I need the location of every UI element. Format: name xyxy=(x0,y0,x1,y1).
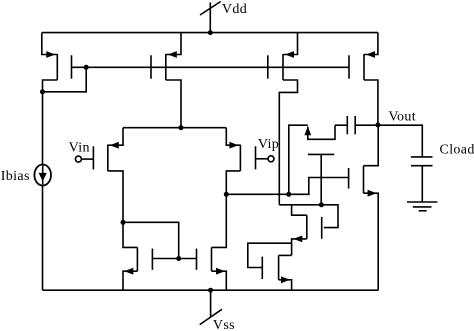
node pmos gate bus dot xyxy=(84,65,89,70)
Vss supply symbol xyxy=(200,290,222,324)
wire Vss bottom rail xyxy=(43,289,379,291)
nmos M7 (mirror load, diode-connected, bottom-left) xyxy=(123,222,152,290)
wire nmos mirror gate link xyxy=(152,258,196,260)
svg-text:Vip: Vip xyxy=(258,137,279,152)
capacitor Cc (Miller compensation) xyxy=(335,116,378,134)
node M7 drain dot xyxy=(121,220,126,225)
nmos M10 (cascode) xyxy=(292,205,322,256)
terminal Vip input circle xyxy=(268,156,274,162)
pmos M3 (second-stage current source, top third) xyxy=(268,33,298,205)
node diff-pair common source dot xyxy=(179,125,184,130)
node Vdd junction dot xyxy=(208,30,213,35)
node Vss junction dot xyxy=(208,288,213,293)
wire Vip gate lead xyxy=(256,158,269,160)
wire Vout to load xyxy=(378,125,422,157)
ground symbol xyxy=(407,202,437,211)
nmos M9 (floating battery / level shift, arrow up) xyxy=(304,125,335,205)
svg-text:Vin: Vin xyxy=(69,141,90,156)
node M6 drain dot xyxy=(224,192,229,197)
wire Vdd top rail xyxy=(42,32,378,34)
node compensation tap dot xyxy=(286,192,291,197)
node nmos mirror gate dot xyxy=(176,256,181,261)
nmos M11 (output driver) xyxy=(349,125,379,290)
node Vout dot xyxy=(375,123,380,128)
nmos M11a (diode-connected, class-AB bias) xyxy=(248,243,292,290)
capacitor Cload xyxy=(411,157,433,202)
wire M1 diode connection (drain to gate) xyxy=(43,67,87,92)
svg-text:Ibias: Ibias xyxy=(1,169,30,184)
wire M9 source to compensation tap xyxy=(289,125,308,194)
wire cascode bias net xyxy=(279,205,338,228)
pmos M5 input Vin (left of differential pair) xyxy=(93,128,123,223)
nmos M8 (mirror load output, bottom-middle) xyxy=(197,194,227,290)
wire diff-pair source node xyxy=(123,127,226,129)
node M1 drain dot xyxy=(40,89,45,94)
wire Vin gate lead xyxy=(81,158,93,160)
node cascode bias dot xyxy=(319,202,324,207)
Vdd supply symbol xyxy=(200,2,221,33)
pmos M4 (output-stage current source, top-right) xyxy=(349,33,378,125)
wire pmos gate bus xyxy=(72,66,350,68)
pmos M2 (tail current mirror, top second) xyxy=(151,33,181,128)
current source Ibias xyxy=(34,92,51,290)
svg-text:Vout: Vout xyxy=(388,110,416,125)
terminal Vin input circle xyxy=(75,156,81,162)
wire second stage gate net (M6 drain to M11 gate) xyxy=(226,178,348,195)
svg-text:Cload: Cload xyxy=(440,143,474,158)
wire M7 diode connection to mirror gates xyxy=(123,222,179,258)
svg-text:Vss: Vss xyxy=(213,318,235,331)
pmos M6 input Vip (right of differential pair) xyxy=(226,128,255,195)
svg-text:Vdd: Vdd xyxy=(222,2,247,17)
pmos M1 (diode-connected bias mirror, top-left) xyxy=(42,33,72,92)
